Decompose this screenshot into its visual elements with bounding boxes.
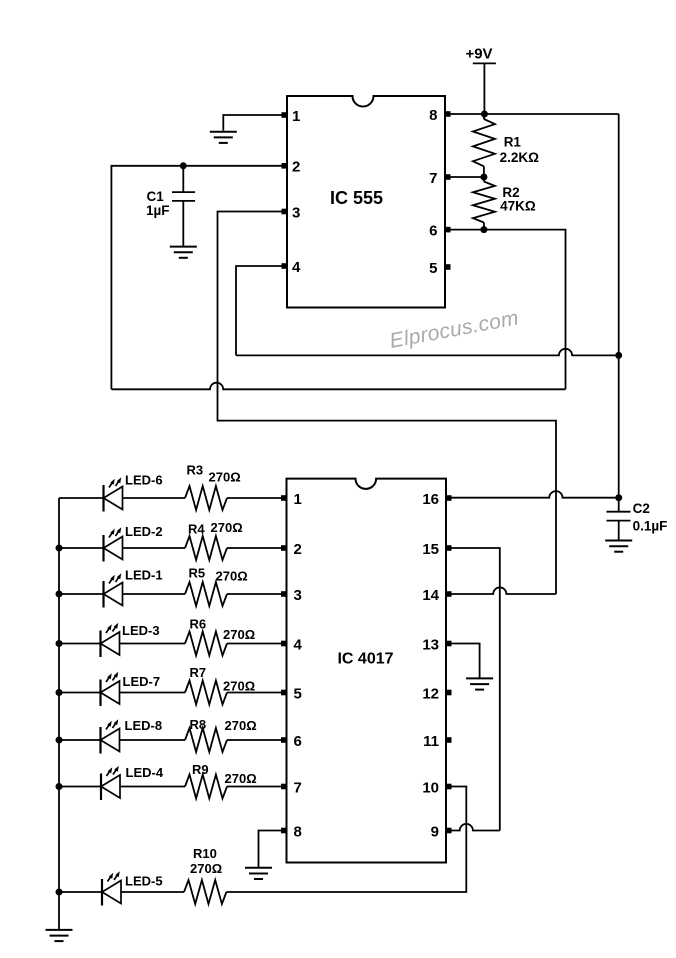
svg-text:2.2KΩ: 2.2KΩ [500, 150, 540, 165]
capacitor C2 [607, 511, 631, 513]
svg-text:R1: R1 [504, 134, 522, 149]
svg-text:IC 4017: IC 4017 [337, 650, 393, 667]
wire pin8 rail to top-right corner [445, 113, 619, 115]
wire C1 top lead [182, 166, 184, 192]
svg-text:R9: R9 [192, 762, 209, 777]
svg-text:5: 5 [429, 260, 437, 277]
4017 pin 3 [281, 591, 287, 597]
4017 pin 7 [281, 784, 287, 790]
svg-text:12: 12 [422, 685, 439, 702]
node pin2/C1 junction [180, 162, 187, 169]
capacitor C1 [172, 191, 195, 193]
svg-text:IC 555: IC 555 [330, 188, 383, 208]
svg-text:LED-5: LED-5 [125, 874, 163, 889]
svg-text:270Ω: 270Ω [190, 861, 222, 876]
wire LED-6 to R3 [123, 497, 186, 499]
ground at bus bottom [46, 930, 73, 941]
svg-text:10: 10 [422, 779, 439, 796]
svg-text:270Ω: 270Ω [223, 679, 255, 694]
wire LED-3 to R6 [120, 643, 186, 645]
resistor R8 [185, 728, 227, 752]
wire R7 to 4017 pin 5 [227, 692, 281, 694]
555 pin 2 [282, 163, 288, 169]
wire bus to LED-1 [59, 593, 104, 595]
op IC 4017 body U2 [287, 479, 447, 863]
wire C2 bottom lead [618, 521, 620, 540]
svg-text:R7: R7 [190, 665, 207, 680]
svg-text:R3: R3 [187, 463, 204, 478]
555 pin 8 [445, 111, 451, 117]
left cathode bus [58, 498, 60, 930]
4017 pin 15 [446, 545, 452, 551]
wire bus to LED-2 [59, 547, 104, 549]
svg-text:+9V: +9V [465, 46, 492, 63]
node reset/rail junction [615, 352, 622, 359]
svg-text:6: 6 [429, 222, 437, 239]
wire LED-7 to R7 [120, 692, 186, 694]
svg-text:13: 13 [422, 636, 439, 653]
svg-text:15: 15 [422, 541, 439, 558]
resistor R5 [185, 582, 227, 606]
wire R10 to 4017 pin10 [226, 787, 466, 893]
resistor R10 [184, 880, 226, 904]
svg-text:2: 2 [294, 541, 302, 558]
svg-text:1µF: 1µF [146, 203, 170, 218]
svg-text:1: 1 [292, 108, 300, 125]
wire 4017 pin14 clock (hops reset line) [446, 587, 556, 594]
4017 pin 8 [281, 828, 287, 834]
wire bus to LED-5 [59, 891, 102, 893]
svg-text:270Ω: 270Ω [223, 627, 255, 642]
svg-text:R5: R5 [189, 566, 206, 581]
svg-text:R6: R6 [190, 617, 207, 632]
svg-text:C1: C1 [147, 189, 165, 204]
svg-text:8: 8 [429, 107, 437, 124]
wire 555 pin3 output [218, 212, 557, 595]
555 pin 1 [282, 112, 288, 118]
wire LED-8 to R8 [120, 739, 186, 741]
wire 4017 pin9 to pin15 (hops pin10 line) [452, 824, 500, 831]
resistor R4 [185, 536, 227, 560]
svg-text:3: 3 [292, 204, 300, 221]
svg-text:R10: R10 [193, 846, 217, 861]
LED LED-8 [101, 719, 120, 753]
wire bus to LED-8 [59, 739, 101, 741]
resistor R3 [185, 486, 227, 510]
svg-text:LED-4: LED-4 [126, 765, 164, 780]
+9V supply bar [473, 62, 496, 64]
ground at C2 [605, 541, 632, 552]
svg-text:LED-7: LED-7 [123, 674, 161, 689]
svg-text:9: 9 [431, 823, 439, 840]
wire R6 to 4017 pin 4 [227, 643, 281, 645]
svg-text:270Ω: 270Ω [209, 470, 241, 485]
svg-text:R2: R2 [502, 185, 519, 200]
555 pin 3 [282, 209, 288, 215]
svg-text:LED-8: LED-8 [125, 718, 163, 733]
4017 pin 10 [446, 784, 452, 790]
4017 pin 11 [446, 737, 452, 743]
wire +9V rail right vertical [618, 114, 620, 498]
LED LED-2 [104, 527, 123, 561]
resistor R2 [473, 182, 495, 223]
wire R9 to 4017 pin 7 [227, 786, 281, 788]
wire +9V to pin8 rail [483, 63, 485, 114]
wire 555 pin2 left rail [111, 166, 287, 389]
555 pin 4 [282, 263, 288, 269]
ground at 4017 pin13 [466, 678, 493, 689]
svg-text:LED-1: LED-1 [125, 568, 163, 583]
wire 4017 pin15 reset [446, 548, 500, 831]
node pin6/R2 junction [480, 226, 487, 233]
node bus junction LED-5 row [56, 889, 63, 896]
resistor R1 [473, 119, 495, 166]
wire LED-1 to R5 [123, 593, 186, 595]
wire 555 pin1 to ground [223, 115, 287, 131]
svg-text:270Ω: 270Ω [225, 718, 257, 733]
node bus junction row 4 [56, 640, 63, 647]
4017 pin 5 [281, 690, 287, 696]
4017 pin 12 [446, 690, 452, 696]
wire 555 pin4 reset [236, 266, 287, 355]
wire bus to LED-6 [59, 497, 104, 499]
svg-text:270Ω: 270Ω [211, 520, 243, 535]
svg-text:LED-6: LED-6 [125, 473, 163, 488]
svg-text:0.1µF: 0.1µF [633, 519, 668, 534]
node bus junction row 5 [56, 689, 63, 696]
svg-text:4: 4 [292, 259, 301, 276]
555 pin 5 [445, 264, 451, 270]
svg-text:6: 6 [294, 733, 302, 750]
svg-text:8: 8 [294, 823, 302, 840]
wire C2 top lead [618, 498, 620, 512]
wire 4017 pin13 to ground [446, 644, 480, 678]
wire LED-2 to R4 [123, 547, 186, 549]
wire LED-4 to R9 [120, 786, 185, 788]
node bus junction row 2 [56, 545, 63, 552]
svg-text:4: 4 [294, 636, 303, 653]
wire pin2-pin6 link (bottom horizontal, hops pin3 line) [111, 383, 565, 390]
svg-text:16: 16 [422, 491, 439, 508]
node C2/pin16 junction [615, 494, 622, 501]
node +9V/pin8/R1 junction [481, 111, 488, 118]
ground at C1 [170, 247, 197, 258]
555 pin 6 [445, 227, 451, 233]
node bus junction row 6 [56, 737, 63, 744]
node bus junction row 3 [56, 591, 63, 598]
svg-text:1: 1 [294, 491, 302, 508]
svg-text:5: 5 [294, 685, 302, 702]
wire 555 pin7 [445, 176, 484, 178]
ground at 4017 pin8 [245, 868, 272, 879]
svg-text:LED-3: LED-3 [122, 623, 160, 638]
svg-text:270Ω: 270Ω [225, 771, 257, 786]
4017 pin 13 [446, 641, 452, 647]
resistor R9 [185, 775, 227, 799]
wire 4017 pin16 to +9V rail (hops clock line) [446, 491, 619, 498]
svg-text:14: 14 [422, 587, 439, 604]
wire R5 to 4017 pin 3 [227, 593, 281, 595]
LED LED-7 [101, 672, 120, 706]
ground at 555 pin1 [210, 132, 237, 143]
node pin7/R1/R2 junction [480, 174, 487, 181]
svg-text:R4: R4 [188, 522, 205, 537]
node bus junction row 7 [56, 783, 63, 790]
4017 pin 9 [446, 828, 452, 834]
555 pin 7 [445, 174, 451, 180]
LED LED-5 [102, 871, 121, 905]
svg-text:11: 11 [423, 733, 439, 750]
wire pin4 link to +9V rail (hops pin6 line) [236, 349, 619, 356]
wire 555 pin6 [445, 230, 566, 390]
wire LED-5 to R10 [121, 891, 184, 893]
wire bus to LED-7 [59, 692, 101, 694]
wire C1 bottom lead [182, 201, 184, 246]
wire bus to LED-3 [59, 643, 101, 645]
4017 pin 16 [446, 495, 452, 501]
wire 4017 pin8 to ground [259, 831, 287, 868]
svg-text:LED-2: LED-2 [125, 524, 163, 539]
4017 pin 6 [281, 737, 287, 743]
svg-text:7: 7 [294, 779, 302, 796]
wire R3 to 4017 pin 1 [227, 497, 281, 499]
wire bus to LED-4 [59, 786, 101, 788]
4017 pin 1 [281, 495, 287, 501]
LED LED-1 [104, 573, 123, 607]
resistor R6 [185, 632, 227, 656]
4017 pin 2 [281, 545, 287, 551]
op IC 555 body U1 [287, 96, 445, 308]
svg-text:47KΩ: 47KΩ [500, 199, 536, 214]
svg-text:R8: R8 [190, 717, 207, 732]
svg-text:C2: C2 [633, 501, 650, 516]
LED LED-4 [101, 766, 120, 800]
svg-text:2: 2 [292, 159, 300, 176]
LED LED-6 [104, 477, 123, 511]
wire R8 to 4017 pin 6 [227, 739, 281, 741]
svg-text:3: 3 [294, 587, 302, 604]
svg-text:270Ω: 270Ω [216, 569, 248, 584]
LED LED-3 [101, 623, 120, 657]
4017 pin 14 [446, 591, 452, 597]
4017 pin 4 [281, 641, 287, 647]
resistor R7 [185, 681, 227, 705]
wire R4 to 4017 pin 2 [227, 547, 281, 549]
svg-text:7: 7 [429, 170, 437, 187]
